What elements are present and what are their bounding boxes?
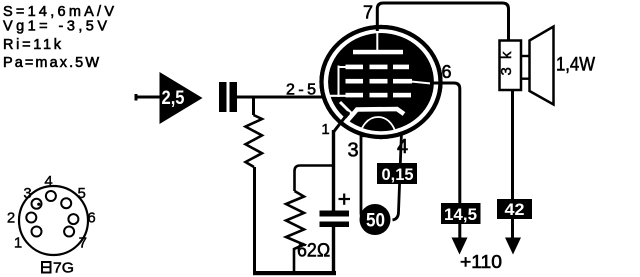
anode lead inside: [376, 31, 378, 50]
grid row 1: [346, 65, 410, 70]
heater circle 50: [360, 204, 391, 235]
wire grid resistor to ground bus: [253, 167, 256, 272]
svg-text:6: 6: [87, 210, 95, 227]
amplifier triangle 2,5: [160, 72, 203, 124]
svg-text:14,5: 14,5: [444, 205, 477, 224]
socket name B7G: [42, 262, 51, 273]
socket pin labels: [7, 173, 96, 252]
socket pin 4: [46, 191, 56, 201]
svg-text:42: 42: [505, 200, 525, 219]
cathode lead diagonal inside: [340, 102, 352, 114]
pin 1 cathode lead: [334, 112, 350, 140]
cathode resistor 62 ohm: [286, 191, 304, 249]
ground bus: [253, 271, 336, 275]
svg-text:0,15: 0,15: [382, 165, 414, 184]
value box 42: [497, 199, 532, 219]
screen grid lead inside: [411, 82, 431, 84]
svg-text:2: 2: [7, 210, 15, 227]
svg-text:Pa=max.5W: Pa=max.5W: [3, 55, 99, 71]
wire resistor to bus: [293, 248, 296, 272]
cathode wire vertical: [332, 130, 335, 211]
svg-text:4: 4: [397, 136, 408, 158]
svg-text:5: 5: [78, 185, 86, 202]
tube data text block: [3, 4, 114, 71]
pin 6 screen wire: [430, 83, 460, 240]
svg-text:7: 7: [79, 235, 87, 252]
svg-text:50: 50: [366, 211, 385, 232]
value box 0,15: [377, 163, 417, 184]
socket pin 1: [32, 227, 42, 237]
svg-text:7G: 7G: [53, 260, 74, 277]
heater pin 3 wire: [361, 133, 367, 221]
socket pin 3: [32, 199, 42, 209]
speaker horn: [530, 27, 554, 105]
wire input to amplifier triangle: [135, 96, 160, 99]
socket pin 6: [68, 214, 78, 224]
pin 7 wire anode to transformer: [377, 3, 508, 41]
cathode network top wire: [295, 166, 334, 192]
tube outer ring restroke: [322, 27, 441, 137]
svg-text:7: 7: [363, 3, 373, 23]
grid row 2: [346, 79, 413, 84]
svg-text:3: 3: [23, 185, 31, 202]
coupling capacitor: [219, 82, 227, 112]
pentode tube envelope: [322, 27, 441, 137]
svg-text:62Ω: 62Ω: [297, 241, 331, 262]
arrow down 42: [505, 238, 521, 255]
socket pin 2: [26, 213, 36, 223]
wire junction to grid resistor: [252, 97, 255, 115]
svg-text:1: 1: [321, 121, 329, 138]
svg-text:2-5: 2-5: [286, 82, 316, 99]
tube gap ring: [326, 31, 436, 134]
input terminal tick: [135, 94, 138, 101]
electrolytic capacitor plates: [320, 211, 350, 217]
transformer box 3k: [500, 41, 522, 91]
socket outline B7G: [19, 186, 88, 255]
heater pin 4 wire: [393, 132, 402, 220]
svg-text:4: 4: [44, 173, 52, 190]
arrow down 14,5: [452, 238, 468, 255]
svg-text:6: 6: [441, 62, 451, 82]
svg-text:1,4W: 1,4W: [556, 55, 595, 76]
socket pin 5: [61, 198, 71, 208]
cathode inside: [347, 109, 404, 121]
output transformer wire down: [511, 90, 514, 240]
grid row 3: [346, 93, 412, 98]
svg-text:3: 3: [347, 140, 358, 162]
value box 14,5: [441, 203, 481, 224]
grid g1 connector inside: [338, 66, 340, 98]
svg-text:Ri=11k: Ri=11k: [3, 37, 62, 53]
svg-text:2,5: 2,5: [162, 88, 185, 109]
anode bar: [353, 50, 403, 55]
svg-text:+110: +110: [460, 252, 502, 272]
socket pin 7: [64, 227, 74, 237]
heater dome: [360, 117, 396, 138]
plus sign: [339, 198, 351, 200]
pentode inner disc: [328, 33, 434, 131]
grid resistor: [246, 115, 263, 167]
wire capacitor to grid: [237, 96, 333, 99]
svg-text:1: 1: [14, 235, 22, 252]
speaker stubs: [521, 55, 530, 57]
